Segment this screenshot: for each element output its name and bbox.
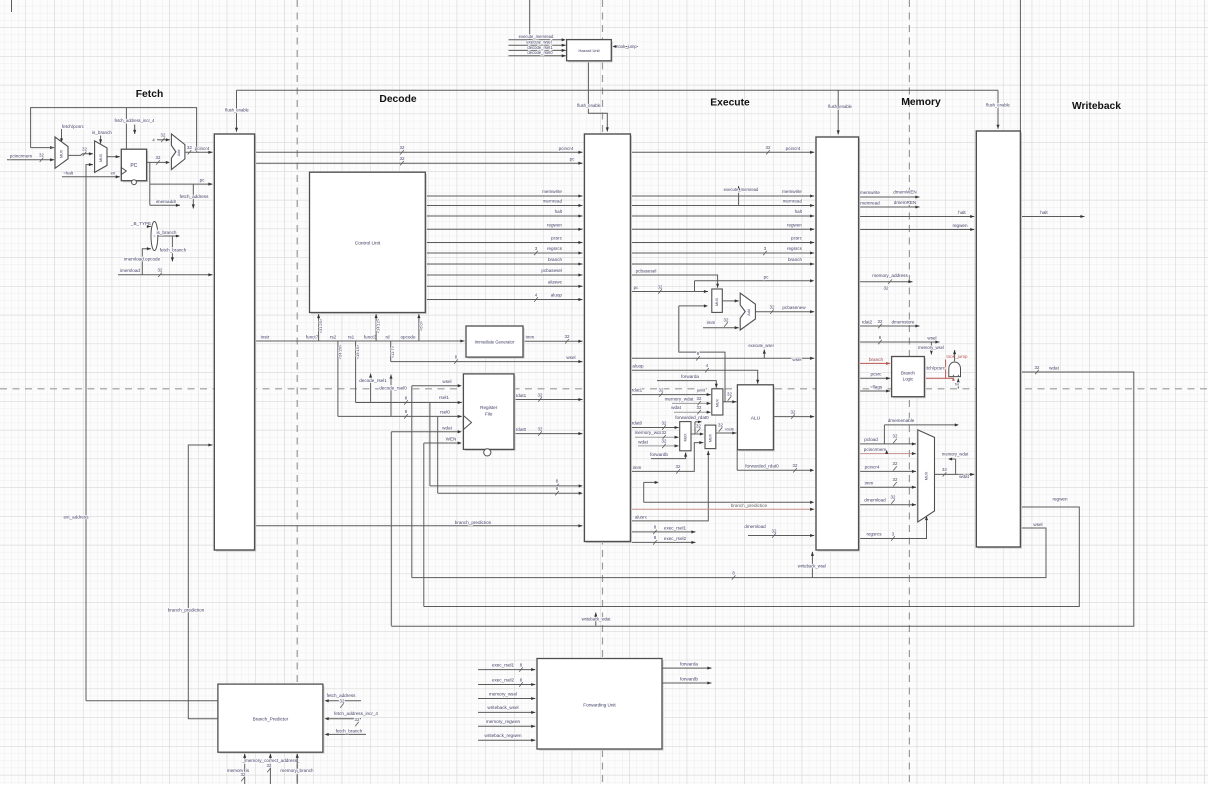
svg-text:MUX: MUX [60, 149, 64, 158]
svg-text:rdatb: rdatb [725, 427, 735, 432]
svg-text:exec_rsel1: exec_rsel1 [664, 525, 687, 530]
wire control regsrcs [425, 246, 582, 255]
wire pc decode [255, 156, 583, 165]
svg-text:fetch_address_incr_4: fetch_address_incr_4 [114, 118, 155, 123]
wire control branch [425, 257, 582, 266]
wire alusrc select into muxC [630, 451, 709, 521]
wire predictor left output branch_prediction [188, 701, 218, 719]
wire pcincrmem into memory mux [859, 447, 916, 455]
svg-text:32: 32 [1035, 365, 1040, 370]
svg-text:wsel: wsel [566, 355, 575, 360]
svg-text:halt: halt [958, 210, 966, 215]
wire pcbase mux to adder [722, 299, 739, 302]
svg-text:forwardb: forwardb [650, 452, 668, 457]
box Immediate Generator [466, 326, 525, 359]
svg-text:decode_rsel0: decode_rsel0 [527, 50, 553, 55]
svg-text:<24:20>: <24:20> [337, 344, 342, 359]
svg-text:fetch_address_incr_4: fetch_address_incr_4 [334, 711, 378, 716]
svg-text:dmemstore: dmemstore [892, 319, 915, 324]
wire rdat2 to dmemstore [859, 319, 920, 328]
wire forwarda select [657, 374, 718, 388]
svg-text:32: 32 [82, 147, 87, 152]
svg-text:32: 32 [538, 392, 543, 397]
wire pcincr4 execute [630, 145, 814, 154]
svg-text:<11:7>: <11:7> [390, 345, 395, 358]
wire writeback_wsel into forwarding unit [478, 705, 535, 714]
wire wsel memory [859, 335, 940, 344]
svg-text:pcincr4: pcincr4 [559, 146, 574, 151]
box Branch_Predictor [218, 684, 325, 754]
svg-text:32: 32 [400, 156, 405, 161]
AND gate took_jump [949, 362, 961, 377]
mux pcbase [712, 289, 723, 312]
pipeline register EX/MEM [816, 137, 860, 552]
title Memory [901, 97, 941, 108]
wire decode_rsel1 into hazard [509, 45, 566, 52]
wire forwardb select [650, 452, 687, 459]
svg-text:rsel0: rsel0 [440, 409, 450, 414]
title Fetch [136, 89, 163, 100]
svg-text:forwardb: forwardb [680, 676, 698, 681]
svg-text:memory_is: memory_is [227, 768, 250, 773]
wire flush_enable distribution line [237, 89, 999, 91]
wire imm into muxC [630, 441, 703, 474]
wire exec_rsel1 into forwarding unit [478, 662, 535, 671]
wire memory_regwen into forwarding unit [478, 719, 535, 728]
wire rdat1 into muxA [630, 387, 710, 396]
wire control memwrite [425, 189, 582, 198]
svg-text:Immediate Generator: Immediate Generator [475, 340, 515, 345]
wire fetch_address_incr_4 into predictor [325, 711, 379, 726]
wire ~halt to PC en [62, 170, 120, 178]
svg-text:32: 32 [791, 409, 796, 414]
svg-text:execute_memread: execute_memread [724, 187, 759, 192]
svg-text:wdat: wdat [1049, 365, 1059, 370]
svg-text:Branch_Predictor: Branch_Predictor [253, 716, 289, 721]
svg-text:32: 32 [718, 422, 723, 427]
wire exec_rsel2 into forwarding unit [478, 677, 535, 686]
svg-text:rd: rd [385, 334, 390, 339]
wire decode_rsel1 tap up [359, 374, 387, 403]
wire memory_correct_address into predictor [241, 754, 300, 784]
svg-text:MUX: MUX [99, 153, 103, 162]
svg-text:PC: PC [130, 163, 137, 169]
wire memory_wdat tap [942, 452, 969, 475]
wire pcbasenew to EX/MEM [755, 305, 814, 314]
wire memory_address out [859, 273, 913, 290]
wire memory mux out wdat to MEM/WB [935, 467, 975, 479]
svg-text:Memory: Memory [901, 97, 941, 108]
wire rf WEN input from writeback loop [424, 437, 462, 607]
wire regwen writeback loop [424, 497, 1080, 607]
svg-text:execute_wsel: execute_wsel [748, 343, 773, 348]
svg-text:is_branch: is_branch [92, 130, 112, 135]
svg-text:Add: Add [177, 150, 181, 156]
svg-text:32: 32 [878, 319, 883, 324]
svg-text:~halt: ~halt [63, 170, 74, 175]
svg-text:memwrite: memwrite [542, 189, 562, 194]
svg-text:memory_wsel: memory_wsel [918, 345, 944, 350]
svg-text:took_jump: took_jump [946, 354, 968, 359]
svg-text:fetch/pcsrc: fetch/pcsrc [923, 366, 946, 371]
svg-text:32: 32 [697, 396, 702, 401]
wire decode_rsel0 tap up [379, 375, 407, 417]
svg-text:regwen: regwen [952, 223, 968, 228]
wire execute_memread into hazard [509, 0, 566, 41]
box Forwarding Unit [537, 659, 664, 751]
wire AND output took_jump up [953, 350, 956, 361]
svg-text:32: 32 [658, 284, 663, 289]
svg-text:aluop: aluop [551, 293, 563, 298]
wire pc to IF/ID [150, 178, 213, 186]
svg-text:dmemload: dmemload [744, 524, 766, 529]
wire regwen memory [859, 223, 975, 231]
wire fetch/pcsrc output of branch logic [923, 354, 968, 381]
svg-text:Logic: Logic [903, 377, 914, 382]
svg-text:dmemenable: dmemenable [888, 418, 915, 423]
stage separator Fetch/Decode [296, 0, 298, 784]
svg-text:regwen: regwen [1052, 497, 1068, 502]
wire branch_prediction execute (red) [630, 503, 814, 511]
svg-text:regwen: regwen [787, 222, 803, 227]
svg-text:32: 32 [772, 528, 777, 533]
svg-text:flush_enable: flush_enable [986, 103, 1010, 108]
wire forwarded_rdat0 to EX/MEM [737, 450, 814, 473]
svg-text:regsrcs: regsrcs [547, 246, 563, 251]
svg-text:Decode: Decode [379, 94, 416, 105]
wire wdat into muxA [671, 405, 711, 414]
svg-text:dmemWEN: dmemWEN [893, 189, 916, 194]
wire memory_wsel tap down [918, 342, 944, 355]
wire memory_wdat into muxB [635, 430, 679, 439]
svg-text:rdat0: rdat0 [632, 421, 643, 426]
adder branch target [740, 293, 755, 330]
svg-text:pcincr4: pcincr4 [865, 464, 880, 469]
wire imemload to IF/ID [118, 268, 213, 277]
wire pc into pcbase mux [630, 284, 708, 293]
svg-text:memwrite: memwrite [782, 189, 802, 194]
wire rf wsel input [412, 379, 462, 577]
svg-text:branch_prediction: branch_prediction [455, 520, 492, 525]
wire branch_prediction into IF/ID [168, 443, 213, 700]
svg-text:wsel: wsel [927, 335, 936, 340]
svg-text:Control Unit: Control Unit [355, 241, 381, 247]
svg-text:pcbasenew: pcbasenew [782, 305, 806, 310]
svg-text:Forwarding Unit: Forwarding Unit [583, 702, 616, 707]
stage separator Memory/Writeback [908, 0, 910, 784]
svg-text:32: 32 [724, 317, 729, 322]
svg-text:pcbasesel: pcbasesel [541, 268, 562, 273]
svg-text:fetch/pcsrc: fetch/pcsrc [62, 124, 85, 129]
svg-text:32: 32 [659, 387, 664, 392]
wire instr opcode riser to control [417, 314, 423, 341]
svg-text:32: 32 [766, 145, 771, 150]
svg-text:exec_rsel1: exec_rsel1 [492, 662, 515, 667]
svg-text:instr: instr [261, 334, 270, 339]
svg-text:32: 32 [355, 717, 360, 722]
wire mux1 to mux2 [68, 147, 93, 156]
svg-text:memory_wdat: memory_wdat [635, 430, 665, 435]
svg-text:is_branch: is_branch [157, 230, 177, 235]
wire took_jump into hazard [612, 44, 638, 49]
wire rdat0 into muxB [630, 420, 678, 429]
wire execute memwrite [630, 189, 814, 198]
svg-text:<6:0>: <6:0> [418, 320, 423, 331]
wire flags into branch logic [859, 384, 891, 392]
svg-text:Execute: Execute [710, 98, 750, 109]
svg-text:pcincrmem: pcincrmem [10, 153, 33, 158]
svg-text:wsel: wsel [792, 357, 801, 362]
svg-text:WEN: WEN [446, 437, 457, 442]
wire muxC out to ALU [716, 422, 737, 434]
mux A operand1 [712, 389, 723, 415]
svg-text:32: 32 [662, 420, 667, 425]
svg-text:dmemload: dmemload [864, 498, 886, 503]
wire is_branch comparator output [157, 230, 180, 237]
wire instr funct7 riser to control [317, 314, 323, 341]
wire control aluop [425, 292, 582, 301]
mux memory writeback-value [918, 430, 935, 522]
wire wsel writeback loop [412, 522, 1046, 580]
svg-text:memory_wsel: memory_wsel [489, 691, 517, 696]
wire constant 4 into adder [152, 133, 170, 143]
wire link to EX/MEM y502 [644, 481, 815, 504]
wire AND right input [955, 379, 960, 389]
wire flush drop MEM/WB [986, 90, 1010, 129]
pipeline register ID/EX [584, 134, 632, 543]
svg-text:wdat: wdat [442, 425, 452, 430]
wire wdat into muxB [638, 439, 679, 448]
mux M1 pc-source [55, 137, 68, 168]
wire imm into memory mux [859, 477, 916, 489]
svg-text:wdat: wdat [638, 439, 648, 444]
wire dmemload into EX/MEM [744, 524, 814, 538]
svg-text:rs2: rs2 [330, 334, 337, 339]
svg-text:flush_enable: flush_enable [577, 103, 601, 108]
wire forwardb output [662, 676, 712, 684]
wire writeback_wdat tap label [582, 613, 612, 626]
svg-text:forwarded_rdat0: forwarded_rdat0 [745, 463, 779, 468]
wire instr funct3 riser to control [375, 314, 381, 341]
wire regsrcs select into memory mux [859, 516, 928, 541]
svg-text:imemload.opcode: imemload.opcode [124, 257, 161, 262]
svg-text:pcincrmem: pcincrmem [864, 447, 887, 452]
svg-text:Add: Add [747, 309, 751, 315]
svg-text:Branch: Branch [901, 371, 915, 376]
wire execute_wsel tap [748, 343, 773, 358]
pipeline register MEM/WB [976, 131, 1022, 549]
wire rsel0 tap to ID/EX [438, 416, 583, 495]
svg-text:<19:15>: <19:15> [355, 344, 360, 359]
svg-text:writeback_regwen: writeback_regwen [484, 733, 521, 738]
svg-text:rdat1: rdat1 [516, 393, 527, 398]
svg-text:32: 32 [662, 439, 667, 444]
svg-text:ALU: ALU [751, 416, 761, 422]
svg-text:halt: halt [795, 209, 803, 214]
svg-text:<14:12>: <14:12> [376, 318, 381, 333]
wire execute regsrcs [630, 246, 814, 255]
svg-text:wsel: wsel [442, 379, 451, 384]
wire fetch_branch into predictor [325, 729, 366, 736]
svg-text:dmemREN: dmemREN [894, 200, 916, 205]
wire flush drop EX/MEM [828, 90, 852, 134]
svg-text:32: 32 [156, 155, 161, 160]
wire imm output [523, 334, 583, 343]
wire halt writeback [1020, 210, 1084, 218]
wire muxB out to muxC and forwarded_rdat0 tap [675, 415, 709, 436]
svg-text:32: 32 [39, 153, 44, 158]
svg-text:32: 32 [158, 268, 163, 273]
svg-text:32: 32 [340, 698, 345, 703]
svg-text:Register: Register [480, 405, 498, 410]
wire fetch_address tap [180, 184, 210, 208]
svg-text:pcsrc: pcsrc [551, 236, 563, 241]
svg-text:wsel: wsel [1033, 522, 1042, 527]
title Decode [379, 94, 416, 105]
wire branch into branch logic (red) [859, 357, 891, 365]
svg-text:took_jump: took_jump [617, 44, 637, 49]
wire execute_wsel into hazard [509, 40, 566, 47]
comparator B_TYPE equality [151, 222, 158, 251]
wire decode_rsel0 into hazard [509, 50, 566, 57]
wire instr rd riser to wsel bus [390, 341, 395, 362]
wire control pcsrc [425, 236, 582, 245]
svg-text:32: 32 [565, 334, 570, 339]
mux C alusrc [705, 425, 716, 449]
svg-text:~flags: ~flags [870, 384, 883, 389]
svg-text:pcload: pcload [864, 437, 878, 442]
svg-text:File: File [485, 412, 493, 417]
svg-text:memory_regwen: memory_regwen [486, 719, 521, 724]
title Writeback [1072, 101, 1121, 112]
stage separator Decode/Execute [602, 0, 604, 784]
wire pcincrmem input [7, 153, 54, 162]
net label fetch/pcsrc with select arrow [60, 124, 85, 143]
svg-text:exec_rsel2: exec_rsel2 [492, 677, 515, 682]
box Hazard Unit [567, 40, 613, 63]
svg-text:32: 32 [883, 286, 889, 291]
wire rf rsel1 input [356, 395, 462, 405]
wire wdat writeback loop [391, 365, 1134, 627]
wire flush drop IF/ID [225, 90, 249, 132]
svg-text:branch: branch [869, 357, 883, 362]
svg-text:opcode: opcode [400, 334, 416, 339]
svg-text:writeback_wdat: writeback_wdat [582, 617, 612, 622]
wire memory_is into predictor [227, 754, 250, 784]
svg-text:32: 32 [696, 423, 701, 428]
mux M2 branch redirect [95, 141, 107, 173]
svg-text:32: 32 [241, 772, 246, 777]
svg-text:32: 32 [891, 495, 896, 500]
svg-text:memread: memread [860, 200, 880, 205]
adder PC+4 [171, 134, 185, 170]
svg-text:branch: branch [788, 257, 802, 262]
svg-text:branch: branch [548, 257, 562, 262]
svg-text:pcbasesel: pcbasesel [636, 269, 657, 274]
wire aluop to ALU [630, 363, 759, 384]
svg-text:memory_wdat: memory_wdat [665, 396, 695, 401]
svg-text:imm: imm [526, 335, 535, 340]
svg-text:32: 32 [893, 477, 898, 482]
svg-text:imemload: imemload [120, 268, 140, 273]
svg-text:<31:25>: <31:25> [318, 318, 323, 333]
wire ext_address from branch predictor to mux2 [63, 163, 93, 701]
svg-text:memory_wdat: memory_wdat [942, 452, 969, 457]
wire dmemenable tap [884, 418, 959, 444]
wire pcincr4 into memory mux [859, 461, 916, 473]
svg-text:Hazard Unit: Hazard Unit [578, 48, 600, 53]
svg-text:memory_branch: memory_branch [280, 768, 314, 773]
wire exec_rsel1 out [630, 525, 695, 534]
wire jalr base from forwarded rdat1 [679, 304, 725, 401]
svg-text:memwrite: memwrite [860, 190, 880, 195]
svg-text:memread: memread [543, 199, 563, 204]
svg-text:jalrid: jalrid [696, 387, 705, 392]
svg-text:memread: memread [783, 199, 803, 204]
wire execute_memread tap [724, 186, 759, 206]
svg-text:imemaddr: imemaddr [156, 199, 177, 204]
svg-text:rdat2: rdat2 [862, 319, 873, 324]
svg-text:MUX: MUX [709, 433, 713, 442]
svg-text:halt: halt [555, 209, 563, 214]
svg-text:pcincr4: pcincr4 [786, 146, 801, 151]
svg-text:imm: imm [633, 465, 642, 470]
svg-text:rdat0: rdat0 [516, 427, 527, 432]
wire pcsrc into branch logic [859, 372, 891, 380]
svg-text:rs1: rs1 [348, 334, 355, 339]
wire execute regwen [630, 222, 814, 231]
svg-text:decode_rsel1: decode_rsel1 [359, 378, 387, 383]
svg-text:halt: halt [1040, 210, 1048, 215]
svg-text:pcsrc: pcsrc [871, 372, 883, 377]
svg-text:memory_address: memory_address [872, 273, 908, 278]
svg-text:decode_rsel0: decode_rsel0 [379, 386, 407, 391]
svg-text:32: 32 [676, 464, 681, 469]
svg-text:32: 32 [538, 426, 543, 431]
svg-text:MUX: MUX [716, 399, 720, 408]
svg-text:imm: imm [707, 320, 716, 325]
mux B operand2 forward [680, 422, 691, 451]
ALU [737, 385, 775, 452]
wire control pcbasesel [425, 268, 582, 277]
svg-text:MUX: MUX [925, 471, 929, 480]
wire rdat0 to ID/EX [514, 426, 583, 435]
svg-text:32: 32 [267, 763, 272, 768]
wire pcincr4 adder out to IF/ID [185, 145, 213, 154]
svg-text:rdat1: rdat1 [632, 388, 643, 393]
wire control memread [425, 199, 582, 208]
svg-text:32: 32 [400, 145, 405, 150]
svg-text:pc: pc [634, 285, 640, 290]
wire imm into pcbase adder [703, 317, 739, 329]
wire rf rsel0 input [338, 409, 462, 418]
svg-text:32: 32 [187, 145, 192, 150]
net label is_branch with select arrow [92, 130, 112, 143]
wire memread to dmemREN [859, 200, 920, 209]
svg-text:32: 32 [893, 434, 898, 439]
svg-text:fetch_address: fetch_address [327, 693, 357, 698]
wire wsel execute [630, 351, 814, 362]
wire muxA out to ALU [723, 391, 737, 403]
svg-text:flush_enable: flush_enable [828, 104, 852, 109]
svg-text:32: 32 [942, 467, 947, 472]
wire pcbasesel to mux select [630, 269, 719, 288]
svg-text:32: 32 [161, 133, 166, 138]
wire rdat1 to ID/EX [514, 392, 583, 401]
svg-text:branch_prediction: branch_prediction [168, 608, 205, 613]
svg-text:forwarda: forwarda [681, 374, 699, 379]
wire execute pcsrc [630, 236, 814, 245]
